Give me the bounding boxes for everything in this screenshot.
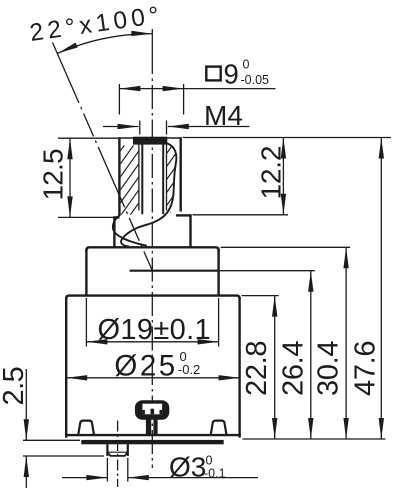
- 22 degree inclined dash-dot line: [53, 43, 153, 271]
- dim 12.5 label: [38, 149, 69, 201]
- dia25 tolerance lower -0.2: [178, 362, 200, 377]
- angle arc arrow right: [131, 31, 152, 36]
- dia3 dimension line left: [62, 477, 107, 479]
- svg-text:-0.2: -0.2: [178, 362, 200, 377]
- sq9 arrow right: [163, 86, 184, 91]
- M4 hole left wall: [141, 144, 143, 214]
- svg-text:Ø3: Ø3: [169, 452, 206, 483]
- dim 30.4: [313, 247, 349, 439]
- spindle left edge: [118, 137, 120, 216]
- svg-text:Ø25: Ø25: [114, 350, 177, 383]
- upper body internal edge: [130, 270, 218, 272]
- svg-text:12.5: 12.5: [38, 149, 69, 201]
- dia19 arrow right: [198, 339, 219, 344]
- dim 47.6: [350, 138, 384, 440]
- dim 22.8: [241, 296, 277, 439]
- dim 12.5 extension top: [58, 137, 118, 139]
- key stem right: [153, 419, 157, 434]
- dim 2.5 arrow down: [24, 419, 29, 440]
- M4 thread major line left: [138, 145, 140, 211]
- dim 12.2 extension bottom: [193, 214, 289, 216]
- spindle top black band: [133, 137, 167, 145]
- sq9 square symbol: [206, 67, 220, 81]
- sq9 arrow left: [119, 86, 140, 91]
- dia19 extension left: [85, 298, 87, 347]
- svg-text:12.2: 12.2: [256, 146, 287, 200]
- alignment pin chamfer line: [107, 451, 127, 453]
- spindle top extension line: [183, 137, 391, 139]
- dim 12.5 extension bottom: [58, 216, 119, 218]
- sq9 label 9: [224, 59, 239, 90]
- lower body left edge: [65, 297, 67, 438]
- dim 12.5 arrow top: [67, 138, 72, 159]
- dia19 label: [98, 314, 212, 346]
- upper body left edge: [85, 249, 87, 296]
- svg-text:-0.05: -0.05: [241, 73, 270, 87]
- svg-text:30.4: 30.4: [313, 341, 345, 396]
- sq9 tolerance lower -0.05: [241, 73, 270, 87]
- dia3 extension left: [106, 458, 108, 482]
- dim 12.2 arrow bottom: [281, 194, 286, 215]
- M4 thread major line right: [166, 145, 168, 211]
- bottom shared extension: [243, 438, 386, 440]
- bottom plate (filled band): [81, 440, 223, 444]
- M4 hole right wall: [162, 144, 164, 214]
- m4 arrow left: [118, 124, 139, 129]
- angle dimension arc: [57, 34, 152, 54]
- base lug left: [78, 421, 94, 436]
- dim 12.2 arrow top: [281, 138, 286, 159]
- dia3 extension right: [127, 458, 129, 482]
- dia25 label: [114, 350, 177, 383]
- dim 12.2 line: [282, 138, 284, 215]
- dim 2.5 extension top: [23, 439, 80, 441]
- sq9 extension line right: [183, 84, 185, 115]
- flange top edge right: [176, 214, 192, 216]
- dim 26.4 extension: [220, 270, 315, 272]
- dim 2.5 line upper: [25, 369, 27, 440]
- svg-text:22.8: 22.8: [241, 341, 273, 396]
- dim 12.5 arrow bottom: [67, 196, 72, 217]
- key tab slot corner mark left: [142, 410, 145, 414]
- alignment pin left edge: [106, 444, 108, 456]
- sq9 extension line left: [118, 84, 120, 115]
- key stem left: [146, 419, 151, 434]
- alignment pin bottom edge: [107, 452, 127, 456]
- key tab slot (white interior): [142, 404, 162, 415]
- m4 dimension line right (leader): [168, 126, 250, 128]
- dia3 dimension line right: [128, 477, 258, 479]
- svg-text:47.6: 47.6: [350, 341, 382, 396]
- dim 30.4 extension: [221, 246, 351, 248]
- svg-text:-0.1: -0.1: [204, 466, 226, 480]
- dia3 label: [169, 452, 206, 483]
- key tab body (filled rounded rect): [135, 400, 169, 420]
- key tab slot notch: [151, 409, 155, 415]
- alignment pin right edge: [127, 444, 129, 456]
- dim 2.5 line lower: [25, 456, 27, 488]
- dia3 tolerance lower -0.1: [204, 466, 226, 480]
- flange right edge: [189, 214, 191, 247]
- svg-text:M4: M4: [204, 100, 243, 131]
- main vertical centerline: [151, 29, 153, 468]
- dim 22.8 extension: [242, 295, 279, 297]
- svg-text:26.4: 26.4: [277, 341, 309, 396]
- lower body bottom edge: [65, 434, 241, 436]
- dia25 arrow right: [219, 375, 240, 380]
- lower body right edge: [238, 297, 240, 438]
- dim 12.2 label: [256, 146, 287, 200]
- dia19 extension right: [218, 298, 220, 347]
- dim 2.5 arrow up: [24, 456, 29, 477]
- angle label 22x100: [28, 2, 165, 47]
- flange top edge left stub: [113, 216, 119, 218]
- dia25 arrow left: [66, 375, 87, 380]
- dia3 arrow right: [128, 475, 149, 480]
- section hatching left of hole: [120, 124, 140, 243]
- dia19 arrow left: [86, 339, 107, 344]
- sq9 tolerance upper 0: [243, 58, 250, 72]
- section hatching right of hole: [166, 137, 179, 246]
- key tab slot corner mark right: [160, 410, 163, 414]
- spindle right edge: [179, 137, 181, 211]
- base lug right: [211, 421, 227, 436]
- svg-text:9: 9: [224, 59, 239, 90]
- upper body right edge: [217, 249, 219, 296]
- dia19 dimension line: [86, 341, 218, 343]
- dia25 tolerance upper 0: [180, 349, 187, 364]
- dim 12.5 line: [69, 138, 71, 217]
- upper body top edge: [86, 247, 218, 251]
- m4 arrow right: [168, 124, 189, 129]
- pin centerline: [117, 421, 119, 488]
- dia3 tolerance upper 0: [206, 454, 213, 468]
- m4 label: [204, 100, 243, 131]
- angle arc arrow left: [57, 43, 77, 54]
- dim 2.5 extension bottom: [23, 455, 104, 457]
- svg-text:2.5: 2.5: [0, 367, 30, 406]
- flange left edge: [113, 217, 115, 247]
- broken-out section break line (right sweep): [121, 144, 176, 247]
- m4 extension tick left: [139, 121, 141, 135]
- svg-text:0: 0: [243, 58, 250, 72]
- lower body shoulder edge: [66, 296, 239, 299]
- m4 dimension line left: [103, 126, 139, 128]
- sq9 dimension line: [119, 88, 275, 90]
- svg-text:Ø19±0.1: Ø19±0.1: [98, 314, 212, 346]
- dia25 dimension line: [66, 377, 239, 379]
- broken-out section break line (left bulge): [113, 216, 146, 246]
- dim 2.5 label: [0, 367, 30, 406]
- m4 extension tick right: [166, 121, 168, 135]
- dia3 arrow left: [86, 475, 107, 480]
- dim 26.4: [277, 271, 313, 439]
- spindle top edge: [118, 137, 182, 139]
